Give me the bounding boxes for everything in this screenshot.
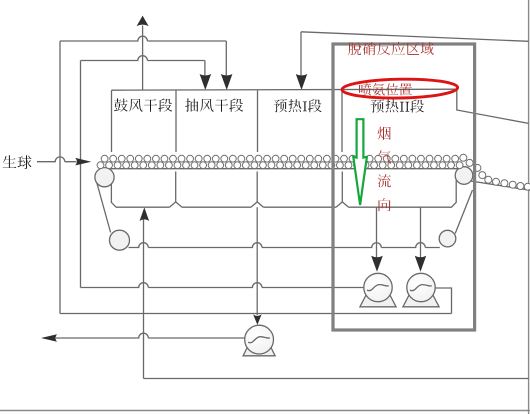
pipe drop x=257.2 to pump P3 [256,207,258,315]
pipe drop x=420.5 to fan P2 [420,207,422,258]
hood divider 抽风/预热I [257,90,259,152]
label 预热I段 [274,99,322,112]
label 烟气流向 vertical [378,127,391,212]
idler left [110,230,130,250]
slanted pipe from page edge to 预热I段 drop [301,32,529,42]
page right border [528,0,530,414]
label 鼓风干段 [114,98,172,112]
grate belt top line [102,168,464,170]
ammonia ellipse [342,78,458,99]
pipe horizontal y=287.5 fan P1 outlet going left [81,283,365,288]
pipe fan P2 outlet to duct corner [435,288,452,314]
hood left wall [111,90,113,152]
label 生球 [3,155,32,169]
pipe vertical x=60 up [59,41,61,314]
belt return line y=247.5 [129,243,440,248]
pump P3 [243,325,275,356]
pipe drop into 抽风干段 right [225,41,227,78]
pipe drop x=376.5 to fan P1 [376,207,378,258]
wind box funnel x=257.2 [251,172,264,208]
pipe vertical x=80.5 up [80,61,82,288]
arrow into pump P3 [253,314,262,325]
wind box funnel x=175.7 [169,172,182,208]
label 脱硝反应区域 [348,42,434,56]
wind box funnel x=342.3 [336,172,349,208]
hood top line [112,89,457,90]
label 预热II段 [371,99,424,112]
pipe vertical x=143.5 up to blast chamber [143,219,145,379]
belt left diagonal [97,182,111,233]
fan P2 [403,273,439,307]
pipe horizontal y=61 with jump [81,56,205,61]
wind box bottom and side walls [111,174,456,207]
feed line 生球 with jump at x=60 [37,157,76,162]
pellets discharging over pulley [460,154,530,190]
arrow into 抽风干段 right [221,74,233,90]
hood right wall and discharge slant [457,89,529,123]
idler right [439,230,456,247]
pipe drop into 抽风干段 left [204,61,206,79]
pipe drop into 预热I段 [300,32,302,78]
arrow into 抽风干段 left [200,74,212,90]
arrow up into blast drying chamber [140,207,150,221]
head pulley left [95,168,114,187]
denitration zone box [333,44,475,330]
arrow into 预热I段 [296,74,307,90]
arrow into fan P2 [415,256,426,272]
pipe left output y=338 from pump P3 [56,333,245,338]
belt right diagonal [455,190,472,234]
fan P1 [360,273,396,307]
label 喷氨位置 [359,83,412,96]
flue gas arrow (green outline) [353,119,367,205]
arrow into fan P1 [371,256,383,272]
pipe horizontal y=40.4 with jump at exhaust stack [60,36,226,41]
discharge chute line [471,181,530,190]
page bottom border [0,410,530,412]
arrow pointing left to stack [41,334,57,342]
pellet bed on grate [97,155,463,168]
head pulley right [455,167,473,185]
feed arrow right [75,158,91,166]
pipe horizontal y=313.5 fans outlet going left [60,313,452,315]
exhaust arrow up [137,16,149,27]
exhaust stack vertical x=142.6 [142,26,144,91]
hood divider 鼓风/抽风 [175,90,177,152]
label 抽风干段 [185,98,243,112]
pipe bottom horizontal y=378.5 [144,378,529,380]
hood divider 预热I/II [341,90,343,152]
